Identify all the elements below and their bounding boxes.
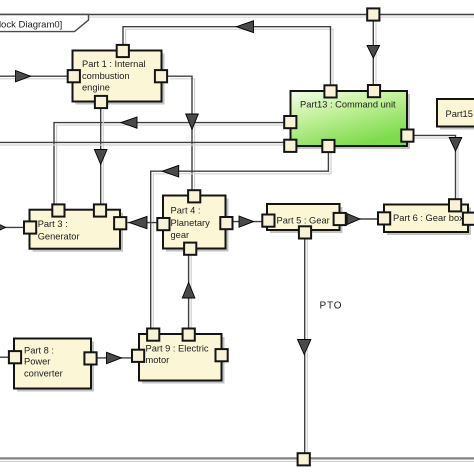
port Part4 left [157,218,169,230]
port Part13 left 2 [284,140,296,152]
port Part8 left [9,351,21,363]
wire Part13 bottom port to Part9 top port 1 [151,151,331,330]
arrowhead right into Part9 left port [107,352,122,363]
svg-text:Power: Power [24,356,50,366]
svg-text:Part 1 : Internal: Part 1 : Internal [82,59,146,69]
wire PTO Part5 bottom port to bottom frame port [305,238,308,455]
port Part4 top [188,190,200,202]
wire Part1 right port to Part4 top port [168,76,195,192]
wire Part13 left port 1 to Part3 top port 1 [54,123,286,206]
wire Part1 bottom port to Part3 top port 2 [101,108,104,207]
wire Part13 top port 1 up-left to Part1 top port [123,27,333,87]
port Part5 bottom [299,226,311,238]
svg-text:Part 9 : Electric: Part 9 : Electric [146,344,209,354]
svg-text:combustion: combustion [82,71,130,81]
svg-text:Part 6 : Gear box: Part 6 : Gear box [393,213,464,223]
port Part3 top 1 [52,204,64,216]
svg-text:Part13 : Command unit: Part13 : Command unit [300,100,396,110]
arrowhead down on wire to Part13 top port 2 [367,46,380,59]
port on top frame border [367,8,379,20]
arrowhead right into Part5 left port [239,216,254,227]
port Part13 top 2 [368,85,380,97]
port Part1 top [117,45,129,57]
svg-text:PTO: PTO [320,301,343,312]
wire Part5 right port to Part6 left port [346,218,380,220]
svg-text:Part 5 : Gear: Part 5 : Gear [277,215,330,225]
arrowhead left into Part3 right port [130,216,148,228]
port Part3 right [114,217,126,229]
frame top border [0,15,474,18]
block Part8 Power converter [14,339,94,392]
wire Part13 right port to Part6 top port [413,135,458,201]
wire left edge to Part1 left port [0,76,68,79]
arrowhead down on PTO wire [298,340,311,355]
port on bottom frame border [298,453,310,465]
wire Part9 top port 2 to Part4 bottom port [189,253,192,330]
port Part13 right [401,130,413,142]
arrowhead down on wire to Part6 top port [449,138,462,152]
port Part1 bottom [95,96,107,108]
port Part13 left 1 [284,116,296,128]
wire left edge to Part3 left port [0,226,25,228]
port Part6 right [463,213,474,225]
svg-text:converter: converter [24,369,63,379]
wire left edge to Part8 left port [0,356,11,358]
block Part1 Internal combustion engine [73,51,165,105]
svg-text:engine: engine [82,82,110,92]
wire frame-port to Part13 top port 2 [373,15,376,88]
port Part9 right [216,349,228,361]
arrowhead right into Part1 left port [16,71,31,82]
wire Part4 left port to Part3 right port [128,222,159,224]
svg-text:Part15 :: Part15 : [446,109,474,119]
wire Part4 right port to Part5 left port [232,221,264,223]
arrowhead down on wire to Part4 top port [186,114,199,130]
svg-text:Part 3 :: Part 3 : [38,219,68,229]
arrowhead right into Part6 left port [347,214,360,225]
port Part4 bottom [184,243,196,255]
arrowhead right cut at left edge near Part3 [0,222,6,234]
svg-text:motor: motor [146,355,170,365]
block Part6 Gear box [384,205,471,236]
port Part6 top [449,199,461,211]
svg-text:Planetary: Planetary [171,218,211,228]
port Part5 right [334,213,346,225]
wire Part8 right port to Part9 left port [96,357,134,359]
block Part4 Planetary gear [163,196,229,252]
svg-text:Generator: Generator [38,231,80,241]
svg-text:Part 8 :: Part 8 : [24,346,54,356]
port Part9 top 1 [147,329,159,341]
block Part13 Command unit [291,91,411,149]
block Part5 Gear [267,204,343,233]
frame tab Block Diagram0 [0,15,89,32]
port Part1 left [68,70,80,82]
port Part1 right [155,70,167,82]
port Part9 left [132,350,144,362]
port Part4 right [220,217,232,229]
block Part3 Generator [30,210,124,252]
port Part3 top 2 [94,204,106,216]
frame bottom border [0,458,474,461]
port Part5 left [262,215,274,227]
port Part3 left [24,221,36,233]
port Part6 left [378,212,390,224]
svg-text:gear: gear [171,230,190,240]
svg-text:Block Diagram0]: Block Diagram0] [0,20,62,31]
arrowhead up on wire to Part4 bottom port [182,283,195,299]
port Part9 top 2 [183,329,195,341]
svg-text:Part 4 :: Part 4 : [171,206,201,216]
arrowhead left on wire to Part3 top port 1 [121,117,137,128]
port Part8 right [84,352,96,364]
port Part13 top 1 [324,85,336,97]
port Part13 bottom [322,140,334,152]
arrowhead down on wire to Part3 top port 2 [94,150,107,165]
arrowhead left on wire to Part1 top port [237,21,254,33]
wire Part13 left port 2 to left edge [0,142,286,145]
block Part9 Electric motor [139,334,225,384]
block Part15 [437,99,474,130]
arrowhead left on wire to Part9 top port 1 [162,165,178,177]
